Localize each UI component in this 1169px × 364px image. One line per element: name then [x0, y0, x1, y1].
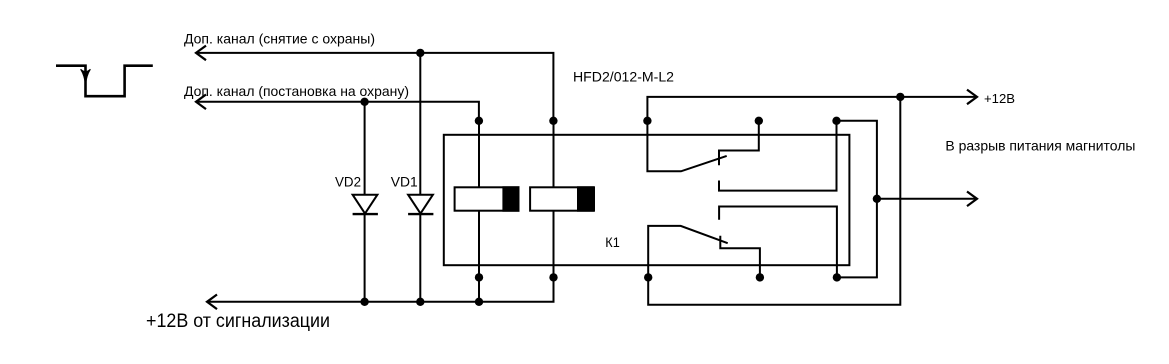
- svg-text:+12В от сигнализации: +12В от сигнализации: [146, 311, 330, 332]
- svg-text:VD1: VD1: [391, 173, 418, 189]
- relay coil 1: [455, 186, 520, 211]
- pin: switch2 NC bottom: [833, 273, 841, 281]
- svg-text:К1: К1: [605, 234, 620, 250]
- switch 2 NC contact bracket: [719, 207, 837, 278]
- trigger pulse waveform: [56, 66, 153, 97]
- pin: switch2 common bottom: [644, 273, 652, 281]
- node: arm/VD2 junction: [360, 98, 368, 106]
- relay coil 2: [530, 186, 594, 211]
- pin: coil2 bottom: [549, 273, 557, 281]
- switch 1 NC contact hook: [719, 121, 759, 165]
- diode VD1: [408, 53, 433, 302]
- svg-text:Доп. канал (снятие с охраны): Доп. канал (снятие с охраны): [184, 31, 375, 47]
- wire: switch2 common to +12V bus: [648, 97, 900, 305]
- wire: coil 1 vertical: [478, 121, 480, 188]
- pin: switch1 NO top: [832, 117, 840, 125]
- node: VD2 / bottom line: [360, 298, 368, 306]
- falling-edge arrow: [81, 69, 91, 85]
- svg-text:В разрыв питания магнитолы: В разрыв питания магнитолы: [945, 137, 1135, 153]
- svg-text:HFD2/012-M-L2: HFD2/012-M-L2: [573, 69, 674, 85]
- relay K1 body: [444, 135, 850, 265]
- wire: arm channel line: [197, 102, 479, 121]
- switch 2 common arm: [648, 226, 728, 278]
- node: VD1 / bottom line: [416, 298, 424, 306]
- diode VD2: [353, 102, 378, 302]
- svg-text:Доп. канал (постановка на охра: Доп. канал (постановка на охрану): [184, 83, 409, 99]
- arrowhead: radio output right: [967, 192, 977, 207]
- wire: disarm channel line: [197, 53, 554, 121]
- pin: switch1 NC top: [755, 117, 763, 125]
- switch 1 common arm: [647, 121, 726, 172]
- pin: coil2 top: [549, 117, 557, 125]
- switch 1 NO contact bracket: [719, 121, 837, 191]
- arrowhead: +12V right: [967, 90, 977, 105]
- node: disarm/VD1 junction: [416, 49, 424, 57]
- arrowhead: bottom line left: [207, 295, 217, 310]
- node: coil1 / bottom line: [475, 298, 483, 306]
- svg-text:VD2: VD2: [335, 173, 361, 189]
- wire: output to radio: [877, 198, 977, 200]
- wire: +12V from alarm bottom line: [207, 277, 554, 301]
- wire: +12V feed line: [647, 97, 977, 121]
- switch 2 NO contact hook: [720, 236, 760, 278]
- pin: switch2 NO bottom: [756, 273, 764, 281]
- arrowhead: arm line left: [196, 95, 206, 110]
- svg-text:+12В: +12В: [984, 91, 1015, 106]
- pin: switch1 common top: [643, 117, 651, 125]
- wire: coil 2 vertical: [553, 121, 555, 188]
- node: NO tie junction: [873, 195, 881, 203]
- pin: coil1 bottom: [475, 273, 483, 281]
- pin: coil1 top: [475, 117, 483, 125]
- node: +12V / return junction: [896, 93, 904, 101]
- wire: NO contacts tie (top pin to right bus): [837, 121, 877, 278]
- arrowhead: disarm line left: [196, 46, 206, 61]
